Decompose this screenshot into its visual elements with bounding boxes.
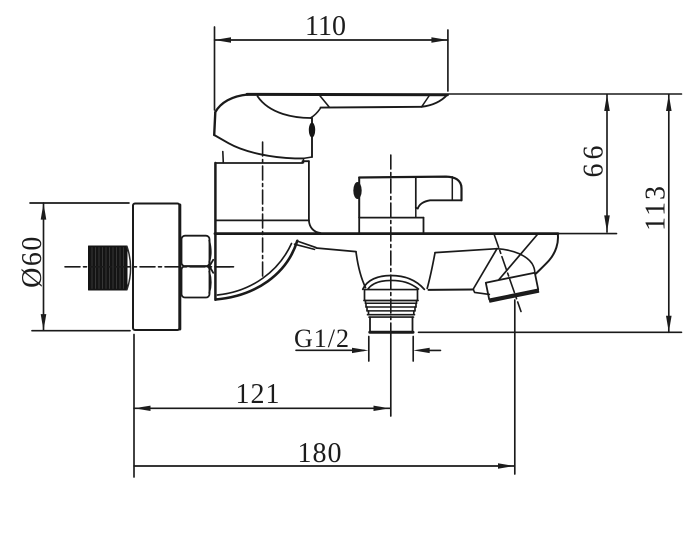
top reference line: [448, 93, 682, 95]
dim 180: [514, 300, 516, 474]
mid reference extension: [558, 233, 617, 235]
bottom reference line: [419, 331, 682, 333]
body wedge lines: [297, 241, 316, 248]
svg-text:G1/2: G1/2: [294, 324, 350, 353]
diverter knob: [353, 177, 461, 233]
dim 110 line: [215, 39, 448, 41]
cartridge centerline: [262, 142, 264, 277]
dim 113: [668, 94, 670, 332]
svg-text:180: 180: [298, 438, 343, 469]
dim D60 line: [43, 203, 45, 331]
cartridge neck: [216, 152, 321, 234]
dim 66: [606, 94, 608, 232]
right lobe and shower elbow: [429, 234, 558, 302]
body left edge: [214, 163, 217, 300]
svg-text:110: 110: [305, 11, 346, 42]
dim D60 extension lines: [30, 202, 129, 204]
handle: [214, 94, 447, 162]
threaded inlet pipe: [89, 246, 131, 290]
tub outlet bell: [356, 252, 435, 333]
hex nut: [182, 236, 214, 298]
dim G1/2: [296, 349, 364, 351]
pipe centerline: [215, 266, 234, 268]
body bottom-left arc: [216, 241, 297, 300]
shower elbow axis centerline: [494, 234, 521, 312]
svg-text:113: 113: [641, 184, 672, 231]
wall flange plate: [133, 204, 180, 331]
dim 121: [133, 335, 135, 478]
svg-text:66: 66: [579, 142, 610, 178]
outlet centerline: [390, 155, 392, 333]
body interior underside line: [316, 248, 497, 253]
dim 110 extension lines: [214, 27, 216, 110]
body top line: [215, 232, 558, 235]
svg-text:121: 121: [236, 379, 281, 410]
svg-text:Ø60: Ø60: [17, 235, 48, 288]
